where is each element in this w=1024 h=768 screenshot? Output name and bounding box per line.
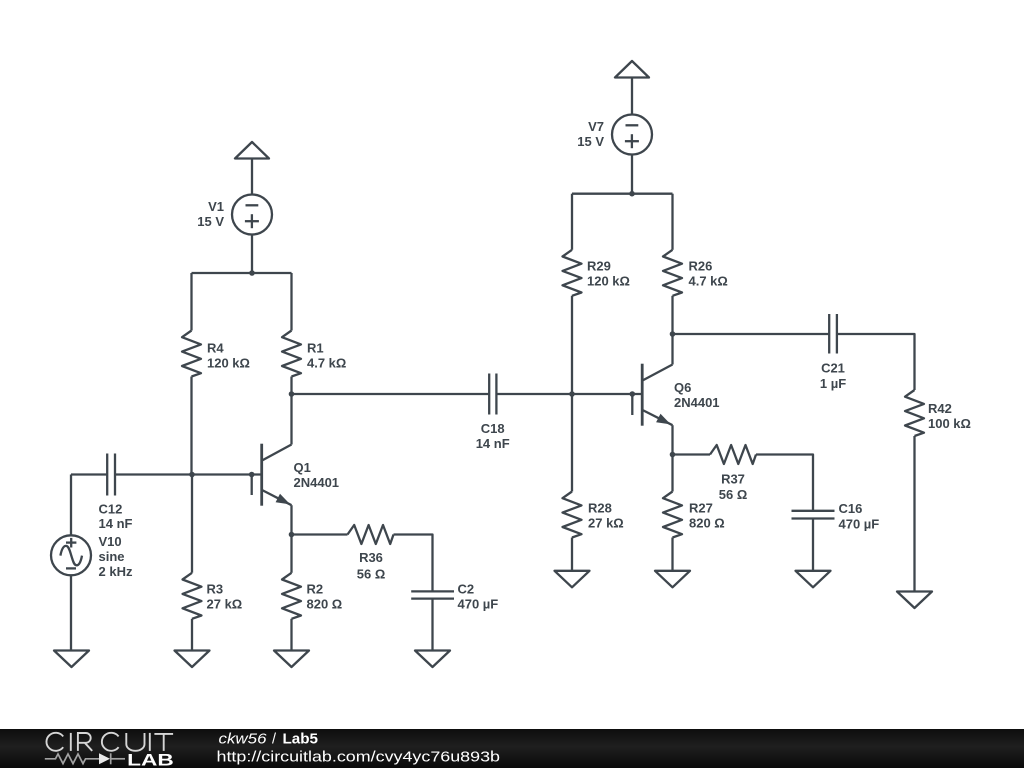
node rail2 junction xyxy=(629,191,635,197)
CircuitLab logo resistor-diode glyph xyxy=(45,753,125,764)
svg-text:C12: C12 xyxy=(99,501,123,516)
wire emitter to R2 xyxy=(290,535,292,573)
resistor R37 xyxy=(710,445,756,502)
wire R3 to ground xyxy=(191,619,193,651)
svg-text:Q1: Q1 xyxy=(294,460,311,475)
wire C18 to R29 column xyxy=(496,393,572,395)
CircuitLab logo CIRCUIT letters xyxy=(46,733,173,751)
svg-text:15 V: 15 V xyxy=(197,214,224,229)
wire rail to R1 xyxy=(290,273,292,331)
wire Q6 base xyxy=(572,393,642,395)
svg-text:120 kΩ: 120 kΩ xyxy=(207,356,250,371)
svg-text:1 µF: 1 µF xyxy=(820,376,846,391)
svg-text:4.7 kΩ: 4.7 kΩ xyxy=(307,356,346,371)
svg-text:2N4401: 2N4401 xyxy=(674,395,720,410)
wire V1 to rail xyxy=(251,235,253,274)
wire rail1 xyxy=(192,272,292,274)
wire collector node to C18 xyxy=(292,393,490,395)
wire R1 to collector node xyxy=(290,377,292,395)
wire collector node to C21 xyxy=(673,333,830,335)
svg-text:2N4401: 2N4401 xyxy=(294,475,340,490)
svg-text:R3: R3 xyxy=(207,582,224,597)
wire C21 to R42 corner xyxy=(837,334,915,390)
svg-text:http://circuitlab.com/cvy4yc76: http://circuitlab.com/cvy4yc76u893b xyxy=(217,749,501,765)
wire R27 to ground xyxy=(671,538,673,571)
transistor Q6 xyxy=(642,334,719,455)
resistor R27 xyxy=(663,492,725,538)
ground (R3) xyxy=(175,651,210,668)
wire rail2 to R29 xyxy=(571,194,573,250)
svg-text:15 V: 15 V xyxy=(577,134,604,149)
svg-text:470 µF: 470 µF xyxy=(458,596,499,611)
svg-text:R26: R26 xyxy=(689,259,713,274)
resistor R26 xyxy=(663,250,728,296)
wire V10 to ground xyxy=(70,575,72,650)
resistor R3 xyxy=(183,573,243,619)
resistor R28 xyxy=(563,492,624,538)
wire R29 to base node xyxy=(571,296,573,394)
wire R26 to collector node xyxy=(671,296,673,334)
svg-text:V10: V10 xyxy=(99,534,122,549)
svg-text:27 kΩ: 27 kΩ xyxy=(207,597,243,612)
voltage source V10 xyxy=(51,534,133,579)
wire R4 to base node xyxy=(190,377,192,475)
wire R28 to ground xyxy=(571,538,573,571)
resistor R36 xyxy=(348,525,394,582)
svg-text:C18: C18 xyxy=(481,421,505,436)
resistor R2 xyxy=(282,573,342,619)
wire R3 top lead xyxy=(191,475,193,573)
svg-text:R28: R28 xyxy=(588,501,612,516)
resistor R1 xyxy=(282,331,346,377)
resistor R4 xyxy=(182,331,250,377)
svg-text:56 Ω: 56 Ω xyxy=(719,487,748,502)
svg-text:V7: V7 xyxy=(588,119,604,134)
resistor R29 xyxy=(563,250,630,296)
svg-text:4.7 kΩ: 4.7 kΩ xyxy=(689,274,728,289)
wire R42 to ground xyxy=(913,436,915,592)
svg-text:Lab5: Lab5 xyxy=(283,731,319,747)
svg-text:R1: R1 xyxy=(307,341,324,356)
svg-text:R42: R42 xyxy=(928,401,952,416)
svg-text:2 kHz: 2 kHz xyxy=(99,564,133,579)
svg-text:120 kΩ: 120 kΩ xyxy=(587,274,630,289)
capacitor C18 xyxy=(476,374,510,452)
wire R37 to C16 corner xyxy=(756,455,813,511)
svg-text:C2: C2 xyxy=(458,581,475,596)
capacitor C12 xyxy=(71,454,133,532)
svg-text:R36: R36 xyxy=(359,550,383,565)
svg-text:Q6: Q6 xyxy=(674,380,691,395)
wire rail2 xyxy=(572,193,673,195)
node C18/R29/R28/base junction xyxy=(569,391,575,397)
node rail1 junction xyxy=(249,270,255,276)
node base/R3/C12 junction xyxy=(189,472,195,478)
capacitor C21 xyxy=(820,314,846,391)
svg-text:C16: C16 xyxy=(839,501,863,516)
power flag (V1 supply) xyxy=(235,142,269,195)
voltage source V1 xyxy=(197,195,272,235)
ground (R42) xyxy=(897,592,932,609)
svg-text:R27: R27 xyxy=(689,501,713,516)
svg-text:100 kΩ: 100 kΩ xyxy=(928,416,971,431)
wire C16 to ground xyxy=(812,519,814,571)
ground (R28) xyxy=(555,571,590,588)
svg-text:56 Ω: 56 Ω xyxy=(357,567,386,582)
wire rail2 to R26 xyxy=(671,194,673,250)
voltage source V7 xyxy=(577,115,652,155)
wire C12 to V10 xyxy=(70,475,72,536)
svg-text:R4: R4 xyxy=(207,341,224,356)
svg-text:V1: V1 xyxy=(208,199,224,214)
svg-text:820 Ω: 820 Ω xyxy=(689,516,725,531)
svg-text:sine: sine xyxy=(99,549,125,564)
svg-text:R37: R37 xyxy=(721,472,745,487)
node Q6 emitter xyxy=(670,452,676,458)
ground (C16) xyxy=(796,571,831,588)
node stub junction on Q1 base xyxy=(249,472,255,478)
node Q1 emitter xyxy=(289,532,295,538)
wire C2 to ground xyxy=(431,599,433,651)
wire emitter to R36 xyxy=(292,533,348,535)
svg-text:820 Ω: 820 Ω xyxy=(307,597,343,612)
ground (R2) xyxy=(274,651,309,668)
ground (R27) xyxy=(655,571,690,588)
wire emitter to R27 xyxy=(671,455,673,492)
wire R2 to ground xyxy=(290,619,292,651)
wire emitter to R37 xyxy=(673,453,711,455)
transistor Q1 xyxy=(262,394,339,535)
svg-text:ckw56: ckw56 xyxy=(219,731,268,747)
ground (C2) xyxy=(415,651,450,668)
footer title ckw56 / Lab5 xyxy=(219,731,319,747)
resistor R42 xyxy=(905,390,971,436)
wire R28 top lead xyxy=(571,394,573,492)
wire V7 to rail2 xyxy=(631,155,633,194)
wire rail to R4 xyxy=(190,273,192,331)
svg-text:R29: R29 xyxy=(587,259,611,274)
node Q1 collector xyxy=(289,391,295,397)
wire base (C12 node to Q1 base) xyxy=(115,473,262,475)
svg-text:470 µF: 470 µF xyxy=(839,516,880,531)
node stub junction on Q6 base xyxy=(630,391,636,397)
svg-text:LAB: LAB xyxy=(127,751,174,768)
wire stub below Q1 base xyxy=(251,475,253,496)
wire stub below Q6 base xyxy=(631,394,633,415)
svg-text:27 kΩ: 27 kΩ xyxy=(588,516,624,531)
wire R36 to C2 corner xyxy=(394,535,433,592)
capacitor C16 xyxy=(792,501,880,531)
svg-text:14 nF: 14 nF xyxy=(476,436,510,451)
node Q6 collector xyxy=(670,331,676,337)
footer bar xyxy=(0,729,1024,768)
ground (V10) xyxy=(54,651,89,668)
power flag (V7 supply) xyxy=(615,61,649,115)
svg-text:C21: C21 xyxy=(821,361,845,376)
svg-text:14 nF: 14 nF xyxy=(99,516,133,531)
capacitor C2 xyxy=(411,581,498,611)
svg-text:R2: R2 xyxy=(307,582,324,597)
